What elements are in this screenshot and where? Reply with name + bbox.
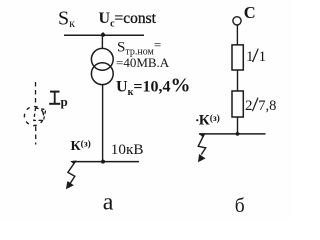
node junction dot right bus [236, 132, 240, 136]
svg-text:Sк: Sк [58, 8, 75, 31]
transformer T1 winding 1 [91, 48, 113, 70]
node Sk label [58, 8, 75, 31]
wire bus to transformer [101, 35, 103, 49]
wire top bus [64, 34, 144, 36]
fault lightning arrow left [66, 161, 77, 190]
wire C to reactor X1 [236, 25, 238, 45]
reactor X2 (2/7,8) [232, 91, 243, 117]
wire transformer to fault bus [102, 85, 104, 162]
voltage label 10кВ [111, 141, 144, 158]
svg-text:C: C [244, 3, 256, 22]
svg-text:=40МВ.А: =40МВ.А [116, 55, 170, 70]
dashed inner square [34, 108, 46, 121]
wire X1 to X2 [237, 70, 239, 91]
reactor X1 (1/1) [232, 45, 243, 70]
wire fault bus right [199, 133, 266, 135]
wire fault bus left [73, 161, 140, 163]
transformer impedance label Uк=10,4% [116, 75, 190, 99]
svg-text:б: б [235, 196, 245, 217]
current label Ip [49, 92, 60, 104]
node C label [244, 3, 256, 22]
dashed feeder line (top) [35, 82, 37, 103]
svg-text:К(з): К(з) [71, 139, 91, 155]
dashed instrument circle [21, 103, 47, 129]
fault point label K(3) right [196, 113, 220, 129]
svg-text:1: 1 [246, 49, 254, 65]
fault point label K(3) left [71, 139, 91, 155]
svg-text:10кВ: 10кВ [111, 141, 144, 158]
caption b [235, 196, 245, 217]
label 2/7,8 [245, 98, 276, 114]
node junction dot on top bus [101, 33, 105, 37]
fault lightning arrow right [198, 133, 206, 162]
svg-text:а: а [103, 190, 114, 216]
wire X2 to fault bus [237, 117, 239, 134]
svg-text:Uс=const: Uс=const [99, 10, 157, 30]
svg-text:К(з): К(з) [199, 113, 220, 129]
caption a [103, 190, 114, 216]
svg-text:Uк=10,4%: Uк=10,4% [116, 75, 190, 99]
transformer T1 winding 2 [91, 63, 113, 85]
svg-text:2: 2 [245, 98, 253, 114]
svg-text:р: р [61, 94, 68, 109]
svg-text:1: 1 [259, 49, 267, 65]
transformer rating label Sтр.ном=40МВ.А [116, 37, 170, 70]
dashed feeder line (bottom) [35, 127, 37, 145]
svg-text:7,8: 7,8 [258, 98, 276, 114]
terminal C circle [233, 17, 241, 25]
label 1/1 [246, 49, 266, 65]
node junction dot on fault bus [101, 160, 105, 164]
node Uc=const label [99, 10, 157, 30]
